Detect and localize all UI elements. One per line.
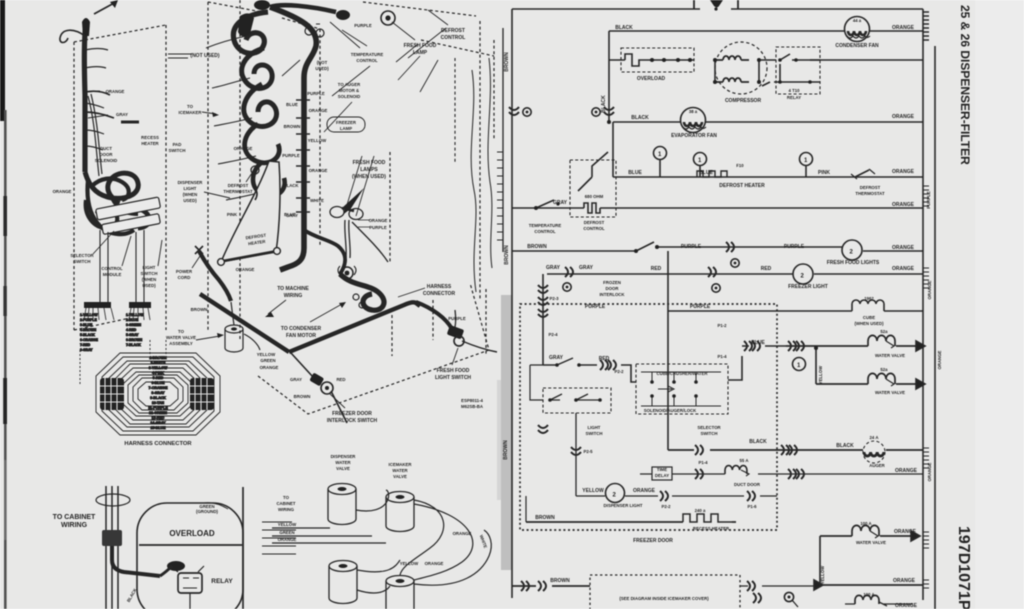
svg-text:P2-2: P2-2 <box>614 369 624 374</box>
svg-text:197D1071P: 197D1071P <box>955 526 972 609</box>
svg-text:WATER VALVE: WATER VALVE <box>875 390 905 395</box>
wire hook left of trunk <box>60 30 85 42</box>
svg-text:SWITCH: SWITCH <box>586 431 603 436</box>
node bulb top of trunk <box>82 18 90 36</box>
wire purple drop <box>667 251 669 414</box>
arrow fresh food lamps to sockets <box>346 156 362 208</box>
wire door harness S2 <box>488 58 492 268</box>
svg-text:RED: RED <box>336 377 345 382</box>
resistor 680 ohm in defrost control <box>578 203 608 213</box>
solenoid 100A bottom <box>855 595 879 604</box>
svg-text:WATER VALVE: WATER VALVE <box>856 540 886 545</box>
svg-text:GRAY: GRAY <box>546 265 561 271</box>
svg-text:SOLENOID: SOLENOID <box>95 158 117 163</box>
svg-text:P2-2: P2-2 <box>661 504 671 509</box>
solenoid water valve 52a B <box>868 373 895 384</box>
frame line right of compressor <box>242 487 244 609</box>
svg-text:SELECTOR: SELECTOR <box>697 425 721 430</box>
compressor split line <box>139 544 242 546</box>
relay time delay box <box>652 467 672 480</box>
wire yellow drop2 <box>819 536 821 585</box>
svg-text:ORANGE: ORANGE <box>369 218 388 223</box>
selector switch internals <box>641 372 721 406</box>
svg-text:TO CABINET: TO CABINET <box>53 514 96 521</box>
wire icemaker exit <box>740 585 820 587</box>
svg-text:ORANGE: ORANGE <box>892 266 915 272</box>
leader selector <box>93 231 114 254</box>
svg-text:LAMP: LAMP <box>413 50 428 56</box>
svg-text:THERMOSTAT: THERMOSTAT <box>223 189 253 194</box>
svg-text:P1-2: P1-2 <box>717 323 727 328</box>
svg-text:ORANGE: ORANGE <box>895 603 918 609</box>
connector pin header B <box>129 302 151 308</box>
wire lamp stem double <box>345 220 350 258</box>
leader not used dashes <box>168 54 192 58</box>
svg-text:BLUE: BLUE <box>699 170 713 176</box>
svg-text:BROWN: BROWN <box>191 307 208 312</box>
heater defrost pictorial sail <box>218 161 296 272</box>
heater recess 240ohm <box>683 514 732 522</box>
svg-text:TO MACHINE: TO MACHINE <box>277 286 309 292</box>
svg-text:WIRING: WIRING <box>61 522 88 529</box>
freezer door dashed enclosure <box>520 304 777 530</box>
wire icemaker feed <box>512 585 590 587</box>
svg-text:GREEN: GREEN <box>279 530 294 535</box>
svg-text:RELAY: RELAY <box>787 95 801 100</box>
lamp freezer light circled 2 <box>793 264 813 284</box>
svg-text:DISPENSER LIGHT: DISPENSER LIGHT <box>604 503 643 508</box>
svg-text:LIGHT: LIGHT <box>184 186 197 191</box>
svg-text:RELAY: RELAY <box>211 578 233 585</box>
svg-text:ORANGE: ORANGE <box>894 529 917 535</box>
svg-text:7-RED: 7-RED <box>80 343 91 347</box>
wire valve arcs <box>356 490 473 593</box>
leader defrost control <box>428 10 448 25</box>
svg-text:4 T10: 4 T10 <box>789 88 801 93</box>
overload dashed box <box>621 48 694 72</box>
svg-text:38 a: 38 a <box>689 109 698 114</box>
node junction dots rung2 <box>607 120 611 124</box>
svg-text:USED): USED) <box>142 283 156 288</box>
wire bundle squiggle left of trunk <box>233 12 268 53</box>
svg-text:DOOR: DOOR <box>606 286 620 291</box>
svg-text:DEFROST: DEFROST <box>441 28 465 34</box>
wire corner to light switch <box>416 302 452 329</box>
node arrow into rail <box>916 341 925 351</box>
motor condenser fan 44A <box>845 17 871 42</box>
wire gray drop from rung6 <box>543 274 557 365</box>
svg-text:4-RED: 4-RED <box>126 328 137 332</box>
svg-text:ICEMAKER: ICEMAKER <box>389 462 413 467</box>
wire long diagonal left <box>200 294 289 352</box>
valve dispenser water cylinder <box>328 484 356 525</box>
solenoid water valve 52a <box>868 335 895 346</box>
valve lower-left cylinder <box>329 561 357 604</box>
wire yellow drop <box>815 348 817 384</box>
node top right corner hatch <box>923 12 929 40</box>
svg-text:CONTROL: CONTROL <box>534 229 556 234</box>
duct door solenoid knot (dark mass) <box>85 172 138 202</box>
connector pin list B <box>126 313 144 347</box>
node X on power cord <box>195 246 203 254</box>
svg-text:SOLENOID/AUGER/LOCK: SOLENOID/AUGER/LOCK <box>644 408 697 413</box>
svg-text:YELLOW: YELLOW <box>308 138 327 143</box>
svg-text:6-ORANGE: 6-ORANGE <box>80 338 99 342</box>
svg-text:DELAY: DELAY <box>655 473 669 478</box>
leader defrost thermostat <box>246 170 254 182</box>
loop ellipse around pipes <box>96 494 130 506</box>
wire harness knot S <box>340 274 384 310</box>
svg-text:TEMPERATURE: TEMPERATURE <box>351 52 384 57</box>
wire thin branches from bundle <box>206 36 262 200</box>
svg-text:3-GREEN: 3-GREEN <box>126 323 142 327</box>
solenoid duct door 55A <box>725 466 747 474</box>
wire rung 7 cube heater <box>668 310 923 312</box>
svg-text:1962: 1962 <box>864 296 874 301</box>
svg-text:1-YELLOW: 1-YELLOW <box>126 313 144 317</box>
svg-text:GRAY: GRAY <box>290 377 302 382</box>
svg-text:ORANGE: ORANGE <box>893 578 916 584</box>
svg-text:ORANGE: ORANGE <box>106 89 125 94</box>
svg-text:PINK: PINK <box>227 212 238 217</box>
wire fan-out under header B <box>129 308 150 320</box>
svg-text:ORANGE: ORANGE <box>927 462 932 481</box>
motor auger 24A <box>863 441 885 463</box>
wire brown bottom of box <box>526 521 736 523</box>
wire branch orange <box>85 91 110 95</box>
svg-text:RED: RED <box>599 356 610 362</box>
arrow condenser fan motor <box>310 304 342 322</box>
motor evaporator fan 38A <box>681 108 707 133</box>
power cord entry <box>694 0 738 11</box>
wire solenoid box to blue rung <box>728 356 742 380</box>
svg-text:PURPLE: PURPLE <box>926 191 931 209</box>
svg-text:PURPLE: PURPLE <box>585 304 606 310</box>
leader to water valve <box>196 336 220 340</box>
node knot circles <box>353 294 359 300</box>
svg-text:WATER VALVE: WATER VALVE <box>166 335 196 340</box>
svg-text:DUCT DOOR: DUCT DOOR <box>734 482 761 487</box>
wire duct pair parallel <box>88 94 102 176</box>
svg-text:TEMPERATURE: TEMPERATURE <box>529 223 562 228</box>
svg-text:BROWN: BROWN <box>527 244 547 250</box>
connector grid block right <box>190 378 214 410</box>
svg-text:10-TAN: 10-TAN <box>152 401 165 405</box>
connector pin list A <box>80 313 99 352</box>
hatch ticks on liner edge <box>497 152 503 240</box>
node overload terminal blob <box>167 561 185 571</box>
svg-text:USED): USED) <box>183 198 197 203</box>
svg-text:5-BLACK: 5-BLACK <box>80 333 95 337</box>
svg-text:52a: 52a <box>880 367 888 372</box>
relay box <box>178 573 202 593</box>
svg-text:8-GRAY: 8-GRAY <box>151 391 165 395</box>
wire door harness S1 <box>471 70 476 292</box>
svg-text:P1-4: P1-4 <box>717 354 727 359</box>
wire trunk center S <box>270 7 316 270</box>
svg-text:(WHEN USED): (WHEN USED) <box>854 321 884 326</box>
leader light switch <box>158 240 162 266</box>
connector breaks rung 6 <box>565 267 573 277</box>
right rail connector hatches <box>923 186 929 206</box>
svg-text:WIRING: WIRING <box>278 507 295 512</box>
wire rung 6 freezer light <box>547 273 923 275</box>
wire power cord <box>199 251 231 301</box>
svg-text:6-BROWN: 6-BROWN <box>126 338 143 342</box>
wire from rung down to light switch <box>530 365 543 400</box>
svg-text:11-PURPLE: 11-PURPLE <box>148 406 168 410</box>
svg-text:YELLOW: YELLOW <box>278 522 297 527</box>
wire rung duct door <box>640 473 786 475</box>
svg-text:RED: RED <box>761 266 772 272</box>
leader gray <box>88 115 108 118</box>
wire rung 5 brown/purple fresh food lights <box>512 247 923 251</box>
svg-text:TO: TO <box>187 104 194 109</box>
scan gray band mid <box>501 295 512 570</box>
panel fresh food liner solid edge <box>502 28 504 252</box>
wire branch gray <box>85 112 114 118</box>
svg-text:MODULE: MODULE <box>103 272 122 277</box>
svg-text:AUGER: AUGER <box>869 463 885 468</box>
svg-text:FREEZER: FREEZER <box>336 120 357 125</box>
svg-text:GRAY: GRAY <box>116 112 128 117</box>
svg-text:FRESH FOOD: FRESH FOOD <box>353 160 386 166</box>
svg-text:MOTOR &: MOTOR & <box>339 88 359 93</box>
wire drops to pin connectors <box>100 230 144 302</box>
svg-text:DOOR: DOOR <box>100 152 114 157</box>
leader dispenser light <box>204 192 230 198</box>
compressor shell <box>137 503 243 609</box>
connector block on pipe <box>102 530 122 546</box>
svg-text:ORANGE: ORANGE <box>895 468 918 474</box>
svg-text:ORANGE: ORANGE <box>425 561 444 566</box>
svg-text:(WHEN: (WHEN <box>142 277 157 282</box>
wire rung water valve A <box>786 345 923 347</box>
solenoid water valve 100 <box>852 525 879 536</box>
svg-text:GRAY: GRAY <box>553 200 568 206</box>
svg-text:ORANGE: ORANGE <box>278 537 297 542</box>
lamp socket rings <box>341 267 353 279</box>
svg-text:ICEMAKER: ICEMAKER <box>179 110 203 115</box>
wire pipe elbow into compressor <box>112 546 160 576</box>
svg-text:ORANGE: ORANGE <box>234 146 253 151</box>
wire outer right rail <box>934 46 936 609</box>
switch fresh food light blob <box>447 325 465 340</box>
svg-text:BROWN: BROWN <box>503 440 509 460</box>
svg-text:240 a: 240 a <box>695 508 706 513</box>
svg-text:ORANGE: ORANGE <box>892 25 915 31</box>
label freezer lamp boxed <box>327 117 365 132</box>
svg-text:(SEE DIAGRAM INSIDE ICEMAKER C: (SEE DIAGRAM INSIDE ICEMAKER COVER) <box>619 596 709 601</box>
light switch dashed box <box>543 388 611 413</box>
svg-text:PAD: PAD <box>173 142 182 147</box>
wire dashed feeds above harness <box>80 340 166 384</box>
svg-text:100 A: 100 A <box>860 521 871 526</box>
svg-text:BLACK: BLACK <box>836 443 854 449</box>
wire lamp lead down <box>352 222 388 262</box>
connector breaks on rung 2 <box>604 107 614 115</box>
svg-text:6-BLUE: 6-BLUE <box>152 381 166 385</box>
svg-text:BROWN: BROWN <box>550 578 570 584</box>
svg-text:PURPLE: PURPLE <box>369 225 387 230</box>
svg-text:PURPLE: PURPLE <box>690 304 711 310</box>
svg-text:P1-6: P1-6 <box>747 504 757 509</box>
svg-text:FAN MOTOR: FAN MOTOR <box>286 333 316 339</box>
connector grid block left <box>100 378 124 410</box>
svg-text:5-RED: 5-RED <box>153 376 164 380</box>
svg-text:2-WHITE: 2-WHITE <box>151 361 166 365</box>
svg-text:3-BLUE: 3-BLUE <box>80 323 93 327</box>
panel freezer door (dashed) <box>74 25 166 330</box>
svg-text:SWITCH: SWITCH <box>169 148 186 153</box>
valve icemaker water cylinder <box>386 492 414 532</box>
node circled 1 on heater rung <box>694 153 707 178</box>
wire rung auger black <box>668 449 923 451</box>
svg-text:RECESS: RECESS <box>141 135 159 140</box>
relay dashed box <box>776 47 820 94</box>
node blob top edge <box>254 0 270 10</box>
svg-text:LIGHT SWITCH: LIGHT SWITCH <box>435 375 471 381</box>
svg-text:(WHEN USED): (WHEN USED) <box>352 174 386 180</box>
svg-text:PURPLE: PURPLE <box>307 91 325 96</box>
svg-text:ORANGE: ORANGE <box>260 365 279 370</box>
svg-text:ORANGE: ORANGE <box>309 108 328 113</box>
wire rung water valve B <box>816 383 923 385</box>
svg-text:LIGHT: LIGHT <box>588 425 601 430</box>
panel fresh food door (dashed) <box>363 2 494 300</box>
defrost control dashed box <box>570 160 616 217</box>
svg-text:FROZEN: FROZEN <box>603 280 621 285</box>
svg-text:DEFROST HEATER: DEFROST HEATER <box>719 183 765 189</box>
svg-text:THERMOSTAT: THERMOSTAT <box>855 191 885 196</box>
node circled 1 <box>793 358 806 371</box>
svg-text:ORANGE: ORANGE <box>453 531 472 536</box>
switch door gray/red <box>557 358 597 365</box>
light switch contacts <box>550 394 600 400</box>
svg-text:15-BLUE: 15-BLUE <box>151 426 167 430</box>
svg-text:HARNESS: HARNESS <box>427 284 452 290</box>
leader fresh food lamp <box>392 22 415 40</box>
compressor run winding <box>715 56 749 60</box>
control module bar (white) <box>102 214 161 235</box>
wire purple drop to light switch <box>454 310 457 327</box>
svg-text:DEFROST: DEFROST <box>584 220 605 225</box>
wire water valve 100 rung <box>820 535 918 537</box>
svg-text:BLACK: BLACK <box>615 25 633 31</box>
leader orange <box>86 91 100 92</box>
svg-text:BLACK: BLACK <box>283 183 299 188</box>
svg-text:2-PURPLE: 2-PURPLE <box>80 318 98 322</box>
svg-text:CABINET: CABINET <box>276 501 295 506</box>
svg-text:GRAY: GRAY <box>286 213 298 218</box>
svg-text:CONTROL: CONTROL <box>356 58 378 63</box>
connector break P1-4 blue <box>744 341 752 351</box>
svg-text:RECESS HEATER: RECESS HEATER <box>693 526 730 531</box>
svg-text:DISPENSER: DISPENSER <box>178 180 204 185</box>
svg-text:ORANGE: ORANGE <box>892 169 915 175</box>
svg-text:BROWN: BROWN <box>504 245 510 265</box>
svg-text:CONTROL: CONTROL <box>583 226 605 231</box>
svg-text:CONDENSER FAN: CONDENSER FAN <box>835 43 879 49</box>
svg-text:INTERLOCK: INTERLOCK <box>599 292 625 297</box>
wire ground leader <box>204 503 228 509</box>
svg-text:TIME: TIME <box>657 467 667 472</box>
svg-text:TO AUGER: TO AUGER <box>338 82 361 87</box>
wire dispenser light rung <box>576 413 777 496</box>
wire trunk freezer-left <box>84 20 86 172</box>
svg-text:SWITCH: SWITCH <box>74 259 91 264</box>
lamp fixture petals <box>330 207 344 218</box>
relay contacts <box>759 54 820 86</box>
svg-text:4-BROWN: 4-BROWN <box>80 328 97 332</box>
svg-text:BROWN: BROWN <box>535 515 555 521</box>
svg-text:ESP8011-4: ESP8011-4 <box>461 398 483 403</box>
wire interlock continuation <box>291 353 347 423</box>
svg-text:EVAPORATOR FAN: EVAPORATOR FAN <box>671 133 717 139</box>
leader power cord <box>192 256 200 268</box>
lamp dispenser light circled 2 <box>606 484 625 503</box>
svg-text:CONNECTOR: CONNECTOR <box>423 291 456 297</box>
svg-text:DUCT: DUCT <box>100 146 112 151</box>
svg-text:WATER: WATER <box>392 468 408 473</box>
svg-text:YELLOW: YELLOW <box>818 365 823 384</box>
wire trunk vertical in box <box>667 414 669 450</box>
svg-text:DEFROST: DEFROST <box>860 185 881 190</box>
svg-text:PURPLE: PURPLE <box>448 316 466 321</box>
svg-text:2-BLUE: 2-BLUE <box>126 318 139 322</box>
svg-text:YELLOW: YELLOW <box>400 561 419 566</box>
svg-text:OVERLOAD: OVERLOAD <box>637 76 666 82</box>
wire relay terminals <box>172 566 204 609</box>
svg-text:RED: RED <box>651 266 662 272</box>
leader control module <box>122 236 131 266</box>
svg-text:7-BLACK: 7-BLACK <box>126 343 141 347</box>
svg-text:GREEN: GREEN <box>260 358 275 363</box>
overload element <box>609 54 694 66</box>
svg-text:ORANGE: ORANGE <box>633 488 656 494</box>
wire long white lead <box>414 530 491 585</box>
svg-text:FREEZER DOOR: FREEZER DOOR <box>332 411 372 417</box>
svg-text:BLUE: BLUE <box>751 340 765 346</box>
svg-text:ASSEMBLY: ASSEMBLY <box>169 341 193 346</box>
svg-text:CONTROL: CONTROL <box>101 266 123 271</box>
svg-text:44 a: 44 a <box>853 18 862 23</box>
heater cube (when used) <box>852 300 884 311</box>
svg-text:WATER: WATER <box>335 460 351 465</box>
heater defrost coil <box>697 171 727 177</box>
svg-text:7-ORANGE: 7-ORANGE <box>149 386 169 390</box>
svg-text:FRESH FOOD LIGHTS: FRESH FOOD LIGHTS <box>827 260 880 266</box>
wire rung 2 evaporator fan <box>613 121 923 123</box>
svg-text:14-GRAY: 14-GRAY <box>150 421 166 425</box>
svg-text:HARNESS CONNECTOR: HARNESS CONNECTOR <box>124 441 192 447</box>
label orange purple dashes <box>358 220 370 227</box>
svg-text:FREEZER DOOR: FREEZER DOOR <box>633 538 673 544</box>
wire duct rung right joins orange <box>786 473 923 475</box>
svg-text:BLACK: BLACK <box>749 439 767 445</box>
svg-text:3-YELLOW: 3-YELLOW <box>149 366 168 370</box>
wire top diagonal bundle <box>270 5 336 12</box>
svg-text:COMPRESSOR: COMPRESSOR <box>725 98 762 104</box>
svg-text:52a: 52a <box>880 329 888 334</box>
leader light switch fresh <box>452 348 458 365</box>
wire trunk side branches <box>85 49 108 151</box>
wire top border <box>512 8 923 10</box>
svg-text:P2-5: P2-5 <box>583 449 593 454</box>
svg-text:4-PINK: 4-PINK <box>152 371 164 375</box>
svg-text:FREEZER LIGHT: FREEZER LIGHT <box>788 284 828 290</box>
svg-text:FRESH FOOD: FRESH FOOD <box>404 43 437 49</box>
